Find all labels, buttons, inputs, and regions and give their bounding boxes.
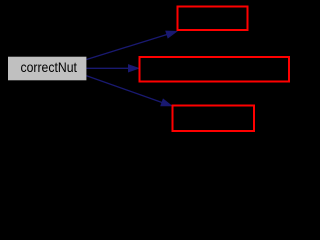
node correctNut (current function, grey) <box>8 57 86 81</box>
node bottom callee (red box, label hidden on black) <box>173 106 255 132</box>
wire: edge correctNut -> middle box <box>87 65 139 72</box>
node top callee (red box, label hidden on black) <box>178 7 248 31</box>
node middle callee (red box, label hidden on black) <box>140 57 290 82</box>
wire: edge correctNut -> bottom box <box>87 76 172 106</box>
wire: edge correctNut -> top box <box>87 31 177 59</box>
svg-text:correctNut: correctNut <box>20 59 77 75</box>
